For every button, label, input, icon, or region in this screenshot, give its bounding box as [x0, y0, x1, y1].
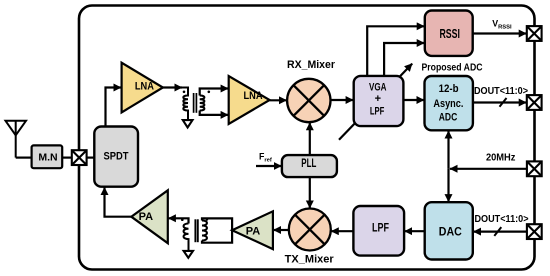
block RSSI [425, 11, 473, 56]
wire balun T1 secondary top to LNA2 [200, 89, 229, 96]
svg-text:12-b: 12-b [439, 83, 459, 95]
wire VGA to ADC [403, 99, 424, 101]
pad RF (crossed box on left boundary) [72, 150, 87, 165]
svg-text:PLL: PLL [301, 158, 316, 170]
balun T2 [181, 218, 208, 251]
ground (RX balun) [183, 120, 193, 127]
amplifier PA1 [131, 190, 168, 243]
wire PA1 to SPDT [105, 187, 132, 216]
wire TX mixer to PA2 [273, 229, 288, 231]
wire VGA to RSSI (top) [367, 26, 424, 76]
wire antenna to M.N [16, 157, 32, 159]
svg-text:LNA: LNA [244, 90, 263, 102]
ground (TX balun) [184, 251, 193, 258]
mixer TX_Mixer [289, 209, 331, 251]
block M.N [32, 145, 63, 168]
svg-text:+: + [375, 93, 381, 105]
svg-text:DOUT<11:0>: DOUT<11:0> [475, 214, 529, 225]
svg-text:Fref: Fref [259, 152, 272, 164]
amplifier PA2 [232, 211, 273, 249]
svg-text:LPF: LPF [370, 106, 385, 118]
pad V_RSSI [527, 26, 542, 41]
VGA variable-gain arrow [339, 64, 412, 140]
amplifier LNA2 [229, 76, 270, 124]
wire clock to ADC (up) and DAC (down) [447, 131, 449, 169]
svg-text:DOUT<11:0>: DOUT<11:0> [474, 86, 528, 97]
bus slash (ADC out) [500, 98, 507, 107]
wire balun T2 to PA1 [168, 218, 188, 223]
svg-text:LPF: LPF [372, 221, 389, 235]
pad DOUT (DAC) [527, 224, 542, 239]
wire RX mixer to VGA [331, 99, 354, 101]
svg-text:LNA: LNA [135, 80, 154, 92]
wire M.N to RF pad [62, 157, 71, 159]
svg-text:RSSI: RSSI [439, 27, 460, 41]
svg-text:Async.: Async. [433, 98, 463, 110]
svg-text:Proposed ADC: Proposed ADC [422, 62, 483, 73]
wire PLL to TX mixer [309, 177, 311, 208]
svg-text:RX_Mixer: RX_Mixer [287, 59, 336, 71]
wire PLL to RX mixer [309, 123, 311, 155]
wire LNA2 to RX mixer [270, 99, 287, 101]
bus slash (DAC in) [494, 227, 501, 236]
wire DOUT pad to DAC (bus) [473, 231, 527, 233]
wire RSSI to V_RSSI pad [473, 32, 527, 34]
svg-text:PA: PA [246, 226, 261, 238]
svg-text:PA: PA [139, 211, 154, 223]
wire F_ref to PLL [256, 165, 281, 167]
amplifier LNA1 [122, 63, 163, 113]
pad DOUT (ADC) [527, 95, 542, 110]
svg-text:TX_Mixer: TX_Mixer [285, 253, 335, 265]
svg-text:ADC: ADC [439, 111, 458, 123]
mixer RX_Mixer [287, 79, 330, 122]
wire RF pad to SPDT [87, 157, 95, 159]
block 12-b Async. ADC [425, 76, 473, 130]
svg-text:VGA: VGA [369, 81, 387, 93]
svg-text:SPDT: SPDT [104, 150, 129, 162]
block SPDT [94, 127, 138, 187]
wire LPF to TX mixer [331, 230, 353, 232]
wire balun T1 secondary bottom to LNA2 [200, 111, 229, 115]
wire LNA1 to balun T1 [163, 86, 182, 88]
chip boundary [79, 6, 535, 270]
block PLL [282, 155, 337, 177]
svg-text:20MHz: 20MHz [486, 153, 516, 164]
svg-text:DAC: DAC [439, 225, 462, 239]
svg-text:M.N: M.N [38, 152, 57, 164]
block LPF [353, 206, 404, 256]
pad 20MHz [527, 161, 542, 176]
svg-text:VRSSI: VRSSI [492, 19, 512, 31]
block VGA+LPF [354, 76, 404, 126]
antenna [6, 121, 27, 158]
balun T1 [182, 88, 210, 121]
wire ADC to DOUT pad (bus) [473, 101, 526, 103]
wire PA2 to balun T2 (loop) [202, 218, 232, 242]
block DAC [425, 202, 473, 259]
wire SPDT to LNA1 [106, 88, 122, 127]
wire DAC to LPF [405, 230, 425, 232]
wire VGA to RSSI (bottom) [384, 43, 424, 76]
wire 20MHz pad to clock node [450, 168, 527, 170]
